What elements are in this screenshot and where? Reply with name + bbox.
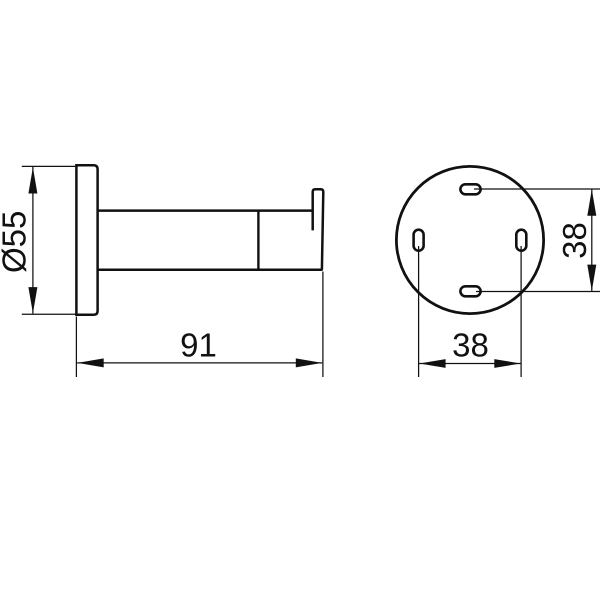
extension line right (91): [322, 272, 324, 378]
arm bottom line: [98, 269, 323, 272]
arrow 38 bottom right: [494, 359, 520, 368]
dimension line 91: [77, 362, 322, 364]
arrow Ø55 bottom: [28, 287, 37, 313]
extension line bottom (Ø55): [22, 313, 77, 315]
hook prong: [313, 189, 324, 270]
arm joint line: [257, 211, 259, 270]
right slot: [516, 230, 526, 251]
extension line top (Ø55): [22, 165, 77, 167]
extension line bottom (38 right): [476, 291, 600, 293]
bottom slot: [460, 286, 480, 296]
svg-text:38: 38: [556, 222, 593, 259]
svg-text:Ø55: Ø55: [0, 211, 33, 273]
dimension line 38 bottom: [419, 363, 521, 365]
wall plate (side view): [76, 165, 97, 314]
mounting plate circle (front view): [396, 166, 543, 313]
top slot: [460, 184, 480, 194]
arrow 91 left: [77, 358, 103, 367]
extension line left (91): [75, 317, 77, 378]
extension line top (38 right): [474, 188, 600, 190]
extension line right (38 bottom): [520, 246, 522, 377]
arrow 38 right top: [587, 190, 596, 216]
svg-text:38: 38: [452, 327, 489, 364]
arrow 91 right: [296, 358, 322, 367]
svg-text:91: 91: [180, 327, 217, 364]
dimension line Ø55: [32, 167, 34, 314]
extension line left (38 bottom): [418, 246, 420, 377]
arrow 38 bottom left: [419, 359, 445, 368]
arm top line: [98, 209, 312, 212]
dimension line 38 right: [591, 189, 593, 291]
arrow Ø55 top: [28, 167, 37, 193]
arrow 38 right bottom: [587, 265, 596, 291]
left slot: [414, 230, 424, 251]
